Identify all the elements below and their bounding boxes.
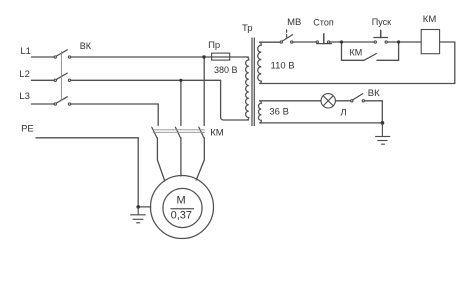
svg-text:110 В: 110 В [271, 60, 295, 71]
svg-text:0,37: 0,37 [171, 209, 192, 221]
svg-text:Пр: Пр [208, 40, 220, 51]
svg-text:Пуск: Пуск [372, 17, 391, 27]
svg-text:КМ: КМ [350, 48, 363, 58]
svg-text:Стоп: Стоп [313, 17, 334, 27]
svg-text:L3: L3 [19, 91, 30, 102]
svg-text:380 В: 380 В [214, 65, 238, 75]
svg-text:36 В: 36 В [269, 107, 289, 118]
svg-text:МВ: МВ [287, 17, 301, 28]
svg-text:М: М [177, 194, 186, 206]
svg-text:ВК: ВК [368, 88, 380, 99]
svg-text:L1: L1 [20, 46, 31, 57]
svg-text:Тр: Тр [242, 23, 253, 34]
svg-text:ВК: ВК [80, 41, 92, 51]
svg-text:КМ: КМ [210, 128, 224, 139]
svg-text:PE: PE [21, 124, 34, 135]
svg-text:Л: Л [340, 108, 346, 119]
svg-text:L2: L2 [19, 69, 30, 80]
svg-text:КМ: КМ [423, 14, 437, 25]
